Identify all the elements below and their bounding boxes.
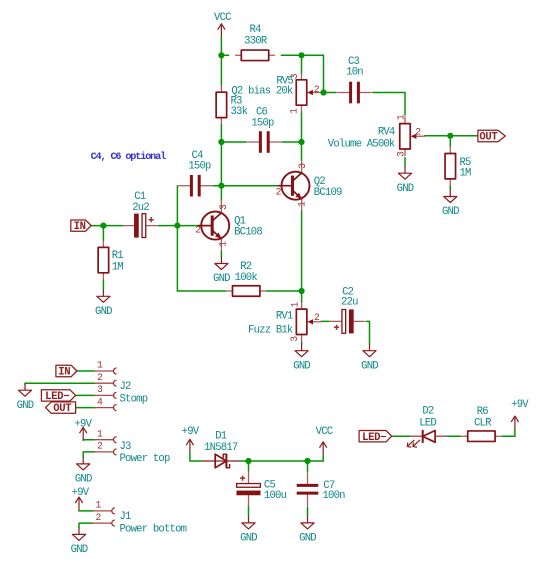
svg-text:10n: 10n	[346, 67, 363, 79]
svg-text:IN: IN	[58, 367, 70, 379]
svg-text:+9V: +9V	[72, 487, 90, 499]
svg-text:LED: LED	[419, 418, 436, 430]
svg-text:CLR: CLR	[474, 417, 492, 429]
svg-text:C4, C6 optional: C4, C6 optional	[91, 151, 166, 163]
svg-text:Power top: Power top	[120, 453, 170, 465]
svg-text:100k: 100k	[235, 272, 258, 284]
svg-text:J2: J2	[120, 381, 132, 393]
svg-text:Power bottom: Power bottom	[120, 523, 187, 535]
svg-text:Q2 bias 20k: Q2 bias 20k	[231, 85, 293, 97]
svg-text:R4: R4	[249, 24, 261, 36]
svg-text:150p: 150p	[188, 160, 211, 172]
svg-text:100n: 100n	[323, 490, 346, 502]
svg-text:VCC: VCC	[214, 12, 231, 24]
svg-text:2u2: 2u2	[132, 202, 149, 214]
svg-text:LED−: LED−	[45, 391, 69, 403]
svg-text:1M: 1M	[112, 261, 124, 273]
svg-text:1N5817: 1N5817	[204, 442, 238, 454]
svg-text:D2: D2	[422, 405, 434, 417]
svg-text:C6: C6	[256, 106, 268, 118]
svg-text:D1: D1	[215, 430, 227, 442]
svg-text:J3: J3	[120, 441, 132, 453]
svg-text:RV4: RV4	[378, 126, 395, 138]
svg-text:22u: 22u	[341, 297, 358, 309]
svg-text:IN: IN	[74, 221, 86, 233]
svg-text:150p: 150p	[251, 118, 274, 130]
svg-text:OUT: OUT	[53, 403, 72, 415]
svg-text:J1: J1	[120, 511, 132, 523]
svg-text:33k: 33k	[231, 106, 248, 118]
svg-text:+9V: +9V	[74, 418, 92, 430]
svg-text:+9V: +9V	[511, 399, 529, 411]
svg-text:RV1: RV1	[276, 311, 293, 323]
svg-text:BC108: BC108	[234, 226, 262, 238]
svg-text:Volume A500k: Volume A500k	[328, 138, 395, 150]
svg-text:Stomp: Stomp	[120, 393, 148, 405]
svg-text:+9V: +9V	[182, 426, 200, 438]
svg-text:BC109: BC109	[314, 187, 342, 199]
svg-text:LED−: LED−	[362, 432, 386, 444]
svg-text:VCC: VCC	[316, 426, 333, 438]
svg-text:100u: 100u	[264, 490, 287, 502]
svg-text:330R: 330R	[244, 36, 268, 48]
svg-text:1M: 1M	[460, 168, 472, 180]
svg-text:R1: R1	[112, 250, 124, 262]
svg-text:Fuzz B1k: Fuzz B1k	[248, 324, 293, 336]
svg-text:OUT: OUT	[479, 132, 498, 144]
